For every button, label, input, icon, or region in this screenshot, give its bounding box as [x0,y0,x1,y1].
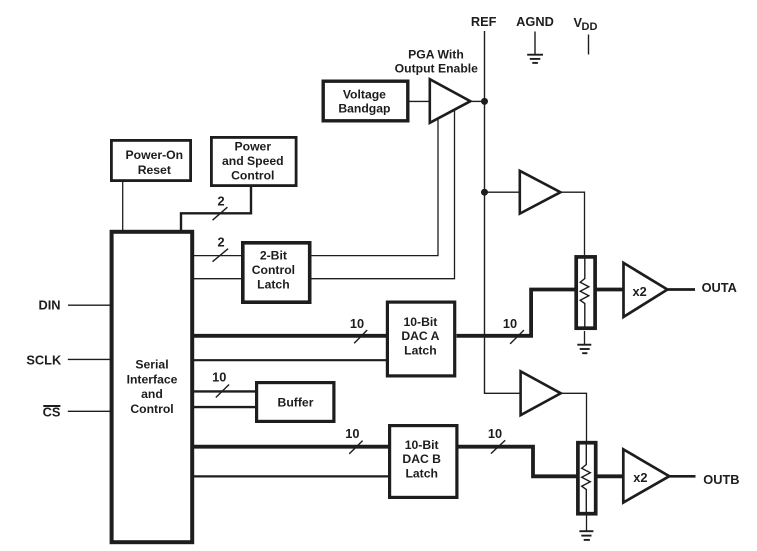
svg-text:Control: Control [231,168,274,182]
wire SCLK [68,358,111,360]
bus label 10 with slash [503,316,524,344]
bus serial to DAC A latch (10) [193,334,388,338]
block 10-Bit DAC A Latch [387,302,454,376]
wire resistor B to x2 amp [598,474,624,478]
wire buffer A output to resistor A [561,192,585,255]
svg-text:10: 10 [345,426,359,441]
bus label 2 with slash [213,193,228,220]
wire PGA gain control 2 [312,110,455,278]
svg-text:10-Bit: 10-Bit [405,438,439,452]
wire x2 B to OUTB [669,475,695,478]
svg-text:PGA With: PGA With [408,48,464,62]
block 2-Bit Control Latch [243,243,310,302]
svg-text:and Speed: and Speed [222,154,284,168]
block Buffer [257,383,334,422]
svg-text:10: 10 [350,316,364,331]
wire serial to buffer 2 [193,406,257,408]
svg-text:Latch: Latch [257,278,290,292]
power VDD label [574,15,598,33]
wire bandgap to PGA [410,100,430,102]
svg-text:10: 10 [503,316,517,331]
svg-text:Control: Control [252,263,295,277]
svg-text:2-Bit: 2-Bit [260,249,287,263]
svg-text:and: and [141,387,163,401]
svg-text:Latch: Latch [405,466,438,480]
svg-text:Power-On: Power-On [126,148,184,162]
wire AGND stub [534,32,536,55]
block Voltage Bandgap [323,81,408,121]
op-amp buffer B triangle [521,371,561,415]
svg-text:OUTB: OUTB [703,472,739,487]
bus label 10 with slash [350,316,367,343]
wire serial to DAC B latch [193,475,390,477]
bus label 10 with slash [212,370,229,398]
svg-text:x2: x2 [632,284,646,299]
node junction dot PGA output on REF rail [481,98,488,105]
wire DIN [68,304,111,306]
wire PGA output to REF rail [470,100,484,102]
bus serial to DAC B latch (10) [193,445,390,449]
block Serial Interface and Control [112,232,193,542]
ground AGND symbol [527,55,543,63]
block Power-On Reset [111,140,190,180]
bus DAC B latch to resistor string (10) [459,447,577,477]
svg-text:Buffer: Buffer [278,396,314,410]
resistor string A [576,257,595,328]
wire serial to 2-bit control latch input 2 [193,278,242,280]
svg-text:Latch: Latch [404,344,437,358]
svg-text:SCLK: SCLK [26,353,62,368]
svg-text:Interface: Interface [127,372,178,386]
svg-text:2: 2 [217,193,224,208]
svg-text:10: 10 [212,370,226,385]
svg-text:REF: REF [471,14,497,29]
block 10-Bit DAC B Latch [390,426,457,498]
bus label 10 with slash [345,426,362,454]
svg-text:10-Bit: 10-Bit [403,315,437,329]
wire serial to 2-bit control latch input 1 [193,255,242,257]
wire x2 A to OUTA [668,288,695,291]
svg-text:DAC A: DAC A [401,329,439,343]
svg-text:AGND: AGND [516,14,554,29]
wire VDD stub [588,35,590,55]
wire 2-bit bus Power and Speed Control to Serial Interface [181,187,251,231]
resistor string B [578,443,596,514]
block Power and Speed Control [211,137,296,185]
svg-text:DD: DD [582,21,598,33]
bus label 10 with slash [488,426,505,454]
svg-text:Power: Power [235,140,272,154]
op-amp U1 PGA With Output Enable label [395,48,478,76]
op-amp buffer A triangle [520,171,561,214]
svg-text:DIN: DIN [38,298,60,313]
ground resistor A [577,331,591,353]
wire REF rail to buffer A [485,191,520,193]
svg-text:DAC B: DAC B [402,452,441,466]
wire Power-On Reset to Serial Interface [122,182,124,231]
svg-text:Serial: Serial [135,358,168,372]
op-amp x2 A triangle [624,263,668,317]
svg-text:x2: x2 [633,470,647,485]
svg-text:Control: Control [130,402,173,416]
bus DAC A latch to resistor string (10) [457,290,576,336]
op-amp U1 PGA triangle [430,79,471,123]
svg-text:Voltage: Voltage [343,88,386,102]
bus label 2 with slash [213,235,229,262]
wire buffer B output to resistor B [561,393,587,441]
wire REF vertical rail down to buffer B input [485,31,521,393]
ground resistor B [579,516,593,540]
svg-text:Reset: Reset [138,163,171,177]
wire PGA gain control 1 [312,119,439,256]
pin CS label with overbar [43,405,61,420]
wire serial to DAC A latch [193,359,388,361]
wire serial to buffer (10) [193,390,257,392]
svg-text:10: 10 [488,426,502,441]
wire resistor A to x2 amp [597,288,624,292]
svg-text:2: 2 [217,235,224,250]
svg-text:Bandgap: Bandgap [338,101,390,115]
svg-text:Output Enable: Output Enable [395,62,478,76]
op-amp x2 B triangle [623,449,669,502]
wire CS [68,410,111,412]
svg-text:OUTA: OUTA [702,280,737,295]
node junction dot REF to buffer A [481,189,488,196]
